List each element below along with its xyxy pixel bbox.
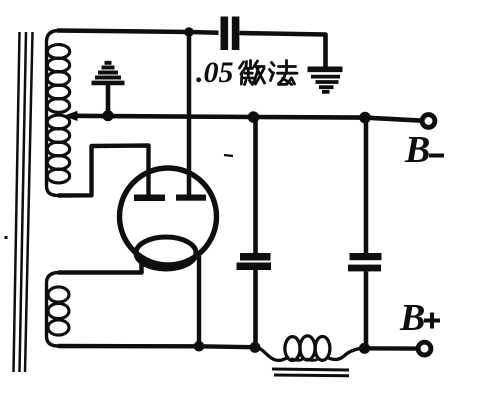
speck (scan artifact, left margin) (5, 236, 8, 239)
filter capacitor C3 (right) (348, 118, 382, 349)
anode plate (left) (134, 195, 165, 202)
node: junction filament lead / B+ rail (194, 341, 205, 352)
svg-text:B: B (404, 129, 430, 171)
node: junction C2 top / B- rail (248, 111, 260, 123)
node: junction C2 bottom / B+ rail (250, 342, 261, 353)
wire: left anode bend from winding bottom (58, 146, 149, 196)
wire: top rail from winding to capacitor (57, 31, 219, 33)
value label 微法 (microfarad, drawn strokes) (240, 61, 298, 85)
svg-text:B: B (399, 297, 425, 339)
node: junction C3 bottom / B+ rail (359, 343, 370, 354)
wire: stem of left ground (106, 84, 111, 115)
tube envelope U1 (120, 168, 217, 265)
label B- (404, 129, 444, 171)
filter capacitor C2 (left) (237, 117, 272, 347)
transformer core T1 (14, 32, 33, 372)
wire: B- rail (70, 116, 420, 121)
anode plate (right) (176, 195, 206, 201)
node: junction C3 top / B- rail (359, 112, 371, 124)
node: HV winding centre tap (arrow) (63, 111, 78, 121)
terminal B- (output) (422, 115, 435, 128)
wire: capacitor C1 to ground corner (240, 33, 326, 68)
choke core bars (272, 369, 349, 376)
node: junction of top rail and plate lead (184, 27, 194, 37)
wire: filament right lead (vertical) (197, 256, 201, 346)
filament (tube heater loop) (136, 237, 196, 269)
node: junction of ground stem and B- rail (102, 110, 113, 121)
label B+ (399, 297, 440, 339)
ground symbol (left, at centre tap) (92, 63, 125, 83)
wire: right anode lead (vertical) (187, 32, 192, 195)
ground symbol (right earth) (308, 69, 343, 92)
terminal B+ (output) (418, 342, 431, 355)
svg-text:.05: .05 (196, 56, 234, 89)
choke L1 (filter inductor) (255, 336, 364, 361)
transformer HV secondary winding (top coil) (47, 31, 70, 196)
speck (scan artifact, near tube) (224, 155, 233, 156)
wire: filament left lead to filament winding (58, 258, 142, 273)
transformer filament winding (lower coil) (47, 273, 70, 347)
capacitor C1 .05uF (plates) (221, 17, 240, 51)
wire: B+ rail right section to terminal (365, 346, 417, 351)
wire: B+ rail left section (58, 346, 253, 347)
